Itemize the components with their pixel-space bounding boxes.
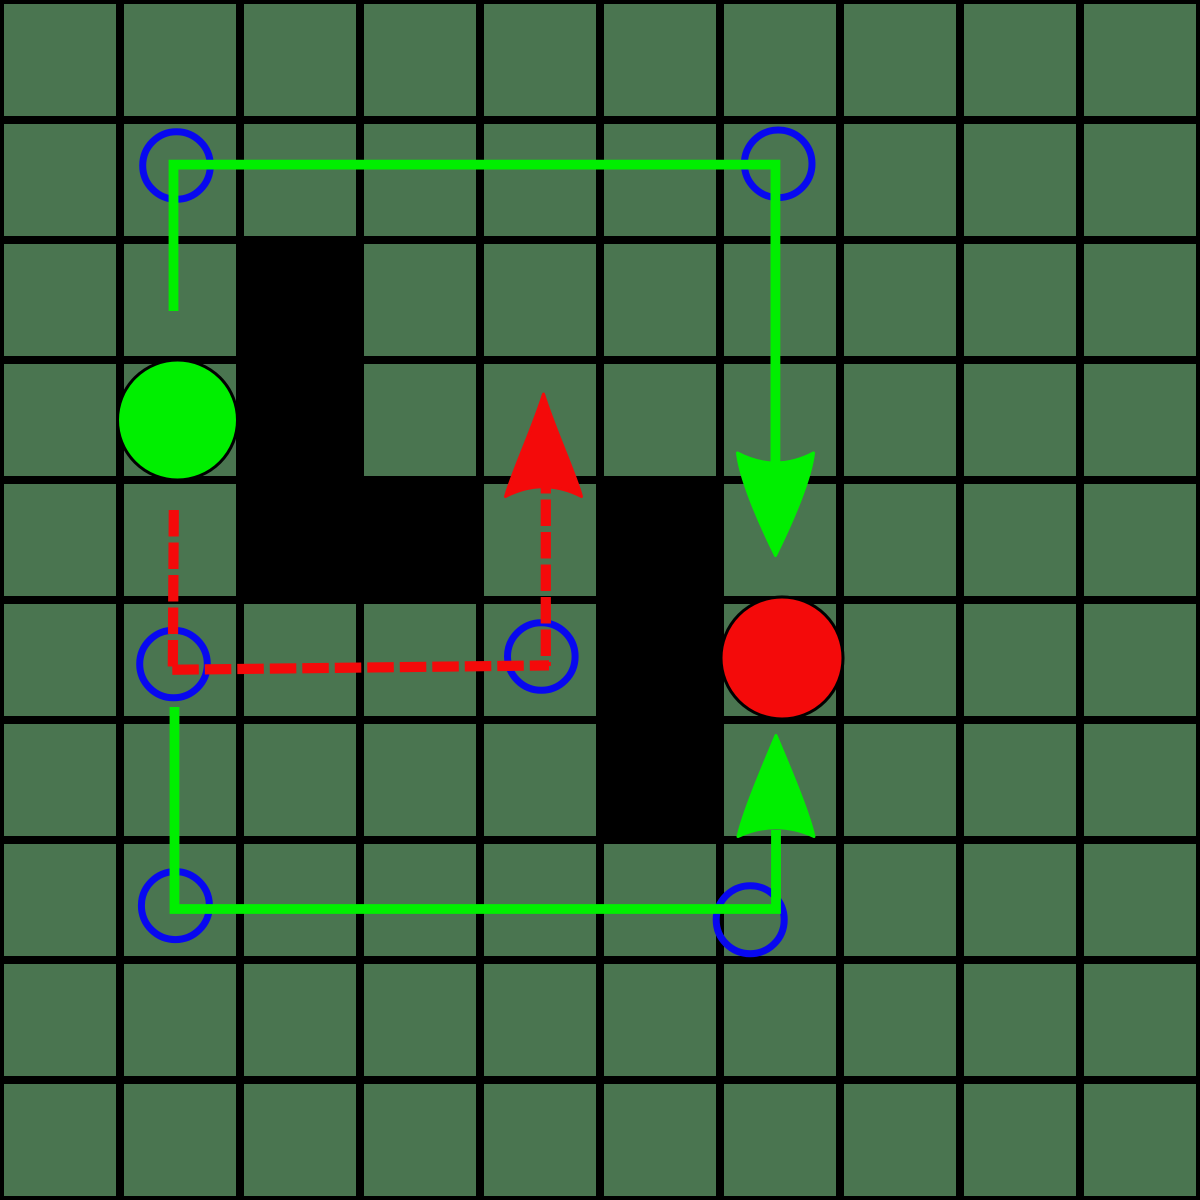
obstacle block 2 (vertical bar): [596, 476, 724, 844]
waypoint ring 2: [744, 130, 812, 198]
waypoint ring 6: [716, 886, 784, 954]
waypoint ring 3: [140, 630, 208, 698]
start circle (green): [118, 360, 238, 480]
waypoint ring 4: [508, 623, 576, 691]
waypoint ring 1: [143, 132, 211, 200]
obstacle block 1 (L-shape): [236, 236, 484, 604]
green arrowhead down: [738, 453, 814, 556]
red dashed horizontal: [168, 665, 549, 669]
red dashed leg from start down: [173, 510, 174, 670]
green path 1 polyline (start leg, top horizontal, right vertical shaft): [174, 165, 776, 462]
green arrowhead up: [738, 736, 814, 837]
red arrowhead up: [506, 394, 582, 497]
red dashed vertical shaft up: [541, 470, 551, 666]
goal circle (red): [721, 597, 843, 719]
waypoint ring 5: [141, 872, 209, 940]
green path 2 polyline (left vertical, bottom horizontal, right shaft up): [175, 707, 777, 909]
